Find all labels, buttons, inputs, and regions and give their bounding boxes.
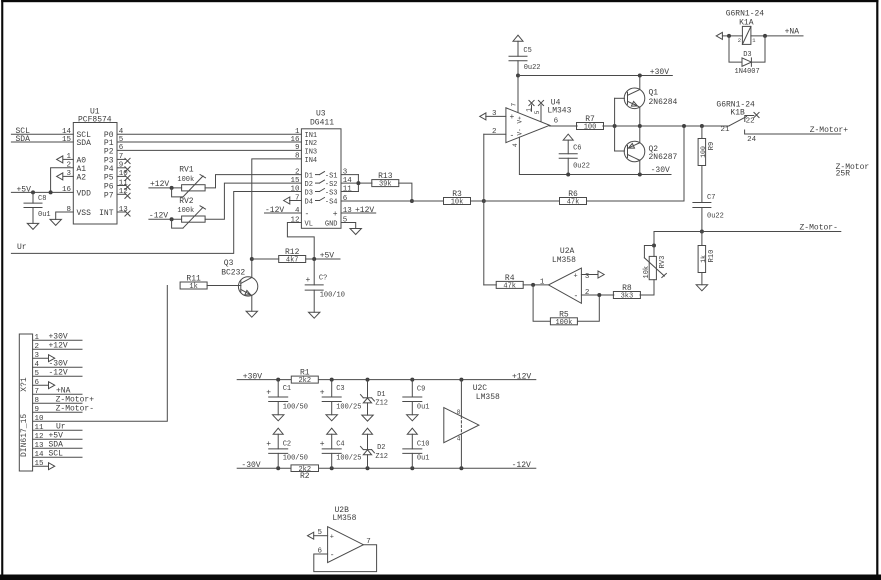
wire U3 S1-S2-S3 tie: [341, 175, 372, 192]
wire +30V rail to R1: [237, 379, 291, 381]
junction R7/base tie: [613, 124, 617, 128]
potentiometer RV2 100k: [172, 197, 206, 228]
svg-text:-30V: -30V: [651, 166, 670, 175]
svg-text:+: +: [266, 389, 271, 398]
wire +12V rail: [319, 379, 536, 381]
junction RV1 wiper tap: [170, 186, 174, 190]
net label -12V at U3 pin 4: [265, 206, 284, 215]
resistor R12 4k7: [279, 248, 306, 265]
svg-text:VL: VL: [305, 221, 313, 229]
svg-text:+NA: +NA: [785, 28, 800, 37]
junction S2/R13: [356, 181, 360, 185]
wire +12V from U3 pin 13: [341, 212, 376, 214]
junction pin2/R5/R8: [597, 293, 601, 297]
svg-text:D2: D2: [305, 181, 313, 189]
wire SCL to U1 pin 14: [11, 133, 73, 135]
svg-text:100/10: 100/10: [320, 292, 345, 300]
net label +5V at R12: [320, 252, 335, 261]
svg-text:3: 3: [66, 170, 71, 178]
svg-text:Q1: Q1: [649, 88, 659, 97]
svg-text:SCL: SCL: [49, 450, 64, 459]
wire R3 to node A: [471, 200, 484, 202]
op-amp U2A LM358: [540, 247, 590, 303]
zener diode D1 Z12: [361, 380, 389, 416]
wire R6 to output rail: [587, 126, 684, 201]
wire Ur to U3 D3: [11, 192, 301, 254]
net label +12V right: [512, 372, 531, 381]
wire +30V rail: [518, 75, 672, 77]
wire Q1/Q2 base tie: [615, 98, 625, 151]
svg-text:9: 9: [295, 144, 300, 152]
net label +12V at U3 pin 13: [355, 206, 374, 215]
svg-text:15: 15: [290, 177, 300, 185]
svg-text:5: 5: [35, 370, 40, 378]
wire SDA to U1 pin 15: [11, 141, 73, 143]
wire U1 A1 to +5V: [51, 168, 74, 193]
connector pin 14 net SCL: [33, 450, 82, 460]
wire R12 to +5V: [252, 258, 340, 260]
svg-text:6: 6: [35, 379, 40, 387]
svg-text:Ur: Ur: [17, 243, 27, 252]
IC U3 DG411: [290, 110, 352, 229]
svg-text:100/50: 100/50: [283, 455, 308, 463]
svg-text:P6: P6: [104, 183, 114, 192]
svg-text:6: 6: [343, 195, 348, 203]
svg-text:100k: 100k: [177, 207, 194, 215]
svg-text:DIN617_15: DIN617_15: [20, 414, 29, 457]
svg-text:U3: U3: [316, 110, 326, 119]
svg-text:+12V: +12V: [512, 372, 531, 381]
svg-text:+: +: [333, 210, 338, 219]
svg-text:+30V: +30V: [49, 333, 68, 342]
svg-text:-S4: -S4: [325, 198, 338, 206]
ground below C1: [273, 415, 284, 421]
junction +5V/C8: [31, 190, 35, 194]
junction C6/-30V: [566, 173, 570, 177]
svg-text:8: 8: [457, 409, 461, 416]
ground below C8: [27, 223, 38, 229]
junction +rail: [459, 378, 463, 382]
svg-text:15: 15: [62, 136, 72, 144]
op-amp U4 LM343: [492, 99, 572, 148]
net label -30V: [651, 166, 670, 175]
svg-text:10: 10: [290, 185, 300, 193]
svg-text:C5: C5: [523, 47, 531, 55]
net label +12V at RV1: [150, 180, 169, 189]
unconnected arrow K1A left: [716, 32, 742, 39]
wire -30V rail to R2: [237, 467, 291, 469]
svg-text:+: +: [306, 276, 311, 285]
junction K1A left / D3: [727, 34, 731, 38]
svg-text:100k: 100k: [555, 319, 572, 327]
wire U4 output to R7: [550, 125, 578, 127]
connector X?1 DIN617_15: [19, 334, 32, 471]
relay contact K1B G6RN1-24: [716, 100, 840, 144]
net label +NA: [785, 28, 800, 37]
wire Z-Motor- rail: [654, 232, 841, 246]
svg-text:RV2: RV2: [179, 197, 194, 206]
svg-text:C3: C3: [336, 385, 344, 393]
wire -12V to RV2: [149, 218, 182, 220]
svg-text:11: 11: [343, 185, 353, 193]
capacitor C? 100/10: [305, 259, 345, 312]
svg-text:P5: P5: [104, 173, 114, 182]
svg-text:C7: C7: [707, 194, 715, 202]
svg-text:R2: R2: [300, 472, 310, 481]
svg-text:16: 16: [62, 186, 72, 194]
svg-text:D2: D2: [377, 444, 385, 452]
U4 pin 4 wire to -30V rail: [519, 137, 671, 174]
junction -rail: [410, 466, 414, 470]
svg-text:C?: C?: [319, 274, 327, 282]
connector pin 2 net +12V: [33, 342, 82, 352]
wire R11 to Q3 base: [207, 285, 241, 287]
junction node A: [482, 199, 486, 203]
net label +30V: [650, 68, 669, 77]
svg-text:C9: C9: [417, 386, 425, 394]
svg-text:7: 7: [35, 388, 40, 396]
ground below R10: [696, 285, 707, 291]
svg-text:D1: D1: [305, 172, 313, 180]
svg-text:5: 5: [343, 216, 348, 224]
svg-text:K1B: K1B: [730, 109, 745, 118]
connector pin 15: [33, 460, 55, 470]
junction -rail: [330, 466, 334, 470]
svg-text:100/25: 100/25: [336, 404, 361, 412]
connector pin 1 net +30V: [33, 333, 82, 343]
connector pin 11 net Ur: [33, 423, 82, 433]
svg-text:0u22: 0u22: [707, 213, 724, 221]
junction Q1 emitter/output rail: [638, 124, 642, 128]
svg-text:IN4: IN4: [305, 157, 318, 165]
svg-text:Z-Motor+: Z-Motor+: [56, 396, 95, 405]
net label SDA: [16, 135, 31, 144]
svg-text:C10: C10: [417, 440, 430, 448]
wire connector pin10 to R11: [33, 286, 167, 422]
junction RV3 wiper tap: [652, 244, 656, 248]
svg-text:C2: C2: [283, 440, 291, 448]
svg-text:6: 6: [119, 144, 124, 152]
ground below C?: [309, 312, 320, 318]
svg-text:14: 14: [35, 451, 45, 459]
connector pin 10: [35, 415, 45, 423]
svg-text:Ur: Ur: [56, 423, 66, 432]
svg-text:Z12: Z12: [375, 453, 388, 461]
junction Q1 collector/+30V: [638, 74, 642, 78]
svg-text:IN1: IN1: [305, 132, 318, 140]
svg-text:-S3: -S3: [325, 189, 338, 197]
net label -12V at RV2: [149, 212, 168, 221]
svg-text:3k3: 3k3: [621, 293, 634, 301]
svg-text:-S1: -S1: [325, 172, 338, 180]
transistor Q3 BC232: [221, 259, 258, 311]
relay coil K1A G6RN1-24: [726, 10, 765, 45]
capacitor C10 0u1: [403, 434, 430, 468]
unconnected arrow on U1 pin A2: [57, 173, 74, 180]
connector pin 13 net SDA: [33, 441, 82, 451]
svg-text:47k: 47k: [567, 199, 580, 207]
svg-text:22: 22: [746, 118, 755, 126]
svg-text:5: 5: [119, 136, 124, 144]
ground at U3 pin 5: [350, 229, 361, 235]
wire U1 VSS to ground: [56, 212, 74, 219]
svg-text:LM358: LM358: [332, 514, 356, 523]
unconnected arrow on U2B pin 5: [308, 532, 328, 539]
svg-text:-30V: -30V: [49, 360, 68, 369]
net label +30V bottom: [243, 372, 262, 381]
svg-text:X?1: X?1: [20, 377, 29, 392]
text note Z-Motor 25R: [836, 163, 870, 179]
svg-text:2N6284: 2N6284: [649, 98, 678, 107]
svg-text:1N4007: 1N4007: [735, 68, 760, 76]
svg-text:PCF8574: PCF8574: [78, 116, 112, 125]
svg-text:-: -: [574, 292, 579, 301]
svg-text:0u1: 0u1: [417, 455, 430, 463]
net label +5V at U1 VDD: [17, 185, 32, 194]
svg-text:2: 2: [492, 128, 497, 136]
wire node A to R6: [484, 200, 560, 202]
svg-text:1: 1: [66, 153, 71, 161]
svg-text:+5V: +5V: [17, 185, 32, 194]
svg-text:0u1: 0u1: [38, 211, 51, 219]
svg-text:RV3: RV3: [659, 256, 667, 269]
resistor R8 3k3: [613, 284, 640, 301]
junction +rail: [276, 378, 280, 382]
svg-text:Q3: Q3: [224, 259, 234, 268]
svg-text:IN2: IN2: [305, 140, 318, 148]
capacitor C3 100/25: [320, 380, 362, 415]
svg-text:Z-Motor-: Z-Motor-: [800, 224, 838, 233]
svg-text:+5V: +5V: [49, 432, 64, 441]
svg-text:INT: INT: [99, 209, 114, 218]
net label SCL: [16, 127, 31, 136]
svg-text:C6: C6: [573, 144, 581, 152]
svg-text:V+: V+: [517, 116, 524, 124]
svg-text:+12V: +12V: [49, 342, 68, 351]
svg-text:LM343: LM343: [547, 107, 571, 116]
svg-text:47k: 47k: [503, 283, 516, 291]
capacitor C7 0u22: [693, 194, 724, 232]
junction +5V/C?: [312, 257, 316, 261]
net label -12V right: [512, 461, 531, 470]
svg-text:SDA: SDA: [77, 139, 92, 148]
op-amp power symbol U2C LM358: [444, 380, 500, 469]
wire U2B feedback pin6-pin7: [314, 545, 377, 572]
connector pin 3: [33, 352, 55, 362]
wire RV2 to U3 D2: [205, 183, 301, 219]
svg-text:RV1: RV1: [179, 166, 194, 175]
junction -rail: [459, 466, 463, 470]
svg-text:D3: D3: [305, 189, 313, 197]
svg-text:Z-Motor-: Z-Motor-: [56, 405, 94, 414]
connector pin 9 net Z-Motor-: [33, 405, 94, 415]
svg-text:-: -: [305, 210, 310, 219]
svg-text:+30V: +30V: [650, 68, 669, 77]
svg-text:3: 3: [343, 168, 348, 176]
op-amp U2B LM358: [317, 506, 370, 562]
junction -rail: [366, 466, 370, 470]
svg-text:-: -: [330, 551, 335, 560]
diode D3 1N4007: [729, 36, 765, 76]
svg-text:Z-Motor+: Z-Motor+: [810, 126, 849, 135]
svg-text:2: 2: [295, 168, 300, 176]
resistor R7 100: [577, 115, 604, 132]
junction C7/Z-Motor- rail: [700, 230, 704, 234]
svg-text:4k7: 4k7: [286, 257, 299, 265]
capacitor C1 100/50: [266, 380, 308, 415]
svg-text:IN3: IN3: [305, 148, 318, 156]
junction C5/+30V: [516, 74, 520, 78]
wire +5V to U1 VDD pin 16: [11, 191, 73, 193]
wire Q3 collector to U3 IN4: [252, 159, 302, 259]
unconnected arrow on U4 pin 3: [480, 113, 506, 120]
svg-text:1: 1: [35, 334, 40, 342]
capacitor C5 0u22: [509, 35, 541, 75]
svg-text:100/25: 100/25: [336, 455, 361, 463]
svg-text:100: 100: [700, 146, 707, 158]
transistor Q1 2N6284: [624, 76, 677, 127]
svg-text:4: 4: [512, 143, 519, 147]
junction +rail: [366, 378, 370, 382]
svg-text:10k: 10k: [643, 266, 651, 279]
ground arrow above C10: [407, 428, 417, 434]
junction R9/output rail: [700, 124, 704, 128]
connector pin 12 net +5V: [33, 432, 82, 442]
svg-text:+5V: +5V: [320, 252, 335, 261]
resistor R11 1k: [180, 275, 207, 292]
svg-text:4: 4: [457, 436, 461, 443]
svg-text:1k: 1k: [189, 283, 197, 291]
svg-text:4: 4: [35, 361, 40, 369]
junction R13/S4 net: [410, 199, 414, 203]
svg-text:3: 3: [35, 352, 40, 360]
svg-text:100/50: 100/50: [283, 404, 308, 412]
unconnected arrow on U2A pin 3: [581, 271, 604, 278]
wire U1 P0 to U3 IN1: [117, 133, 301, 135]
svg-text:R10: R10: [708, 250, 716, 263]
wire K1A right to +NA: [751, 35, 803, 37]
svg-text:C1: C1: [283, 385, 291, 393]
svg-text:P2: P2: [104, 147, 114, 156]
potentiometer RV1 100k: [172, 166, 206, 197]
net label Ur: [17, 243, 27, 252]
svg-text:A2: A2: [77, 173, 87, 182]
svg-text:0u22: 0u22: [524, 64, 541, 72]
svg-text:-12V: -12V: [49, 369, 68, 378]
svg-text:LM358: LM358: [552, 256, 576, 265]
unconnected arrow on U1 pin A0: [57, 156, 74, 163]
junction Q2 collector/-30V: [638, 173, 642, 177]
svg-text:100k: 100k: [177, 176, 194, 184]
svg-text:0u1: 0u1: [417, 404, 430, 412]
svg-text:DG411: DG411: [310, 119, 334, 128]
svg-text:LM358: LM358: [476, 393, 500, 402]
svg-text:12: 12: [35, 433, 44, 441]
connector pin 5 net -12V: [33, 369, 82, 379]
svg-text:SDA: SDA: [49, 441, 64, 450]
ground arrow above C4: [327, 428, 337, 434]
svg-text:VSS: VSS: [77, 209, 92, 218]
svg-text:8: 8: [66, 206, 71, 214]
svg-text:10k: 10k: [451, 199, 464, 207]
svg-text:R9: R9: [708, 142, 716, 150]
svg-text:VDD: VDD: [77, 189, 92, 198]
svg-text:14: 14: [62, 128, 72, 136]
capacitor C2 100/50: [266, 434, 308, 468]
resistor R4 47k: [496, 274, 523, 291]
svg-text:2: 2: [738, 37, 741, 44]
svg-text:9: 9: [119, 162, 124, 170]
zener diode D2 Z12: [361, 434, 389, 468]
svg-text:C8: C8: [38, 195, 46, 203]
connector pin 4 net -30V: [33, 360, 82, 370]
wire -12V rail: [319, 467, 536, 469]
svg-text:-12V: -12V: [512, 461, 531, 470]
svg-text:7: 7: [119, 153, 124, 161]
ground below U1 VSS: [50, 219, 61, 225]
wire U2A output pin 1: [523, 284, 548, 286]
junction K1A right / D3: [763, 34, 767, 38]
svg-text:2: 2: [35, 343, 40, 351]
wire U1 P2 to U3 IN3: [117, 149, 301, 151]
svg-text:2N6287: 2N6287: [649, 153, 678, 162]
svg-text:+: +: [320, 440, 325, 449]
junction R4/R5/pin1: [531, 283, 535, 287]
svg-text:7: 7: [295, 194, 300, 202]
net label Z-Motor+: [810, 126, 849, 135]
transistor Q2 2N6287: [624, 126, 677, 175]
wire +12V to RV1: [149, 187, 182, 189]
junction +5V/A1: [49, 190, 53, 194]
unconnected arrow on U3 pin D4: [284, 197, 302, 204]
ground below D1: [362, 415, 373, 421]
svg-text:39k: 39k: [379, 181, 392, 189]
svg-text:BC232: BC232: [221, 269, 245, 278]
ground below C9: [407, 415, 418, 421]
svg-text:+: +: [320, 389, 325, 398]
wire -12V to U3 pin 4: [265, 212, 302, 214]
svg-text:4: 4: [119, 128, 124, 136]
svg-text:8: 8: [295, 153, 300, 161]
svg-text:G6RN1-24: G6RN1-24: [726, 10, 765, 19]
unconnected stubs U1 P3-P7, INT: [117, 158, 130, 216]
svg-text:13: 13: [343, 207, 353, 215]
wire RV3 to R8: [640, 294, 654, 296]
svg-text:25R: 25R: [836, 170, 851, 179]
resistor R10 1k: [698, 232, 716, 285]
svg-text:U2C: U2C: [473, 384, 488, 393]
capacitor C6 0u22: [559, 134, 590, 174]
junction +rail: [410, 378, 414, 382]
resistor R3 10k: [444, 190, 471, 207]
junction Q3 collector/R12: [250, 257, 254, 261]
svg-text:7: 7: [511, 103, 518, 107]
svg-text:24: 24: [747, 136, 757, 144]
svg-text:D3: D3: [743, 51, 751, 59]
junction +rail: [330, 378, 334, 382]
IC U1 PCF8574: [62, 108, 128, 225]
connector pin 7 net +NA: [33, 387, 82, 397]
svg-text:P7: P7: [104, 191, 114, 200]
svg-text:-: -: [510, 132, 515, 141]
junction R6/output rail: [682, 124, 686, 128]
svg-text:+: +: [574, 272, 578, 280]
svg-text:8: 8: [35, 397, 40, 405]
wire U1 P1 to U3 IN2: [117, 141, 301, 143]
U4 unconnected pins 1 and 5: [526, 100, 544, 121]
resistor R5 100k: [533, 285, 599, 327]
svg-text:+NA: +NA: [56, 387, 71, 396]
